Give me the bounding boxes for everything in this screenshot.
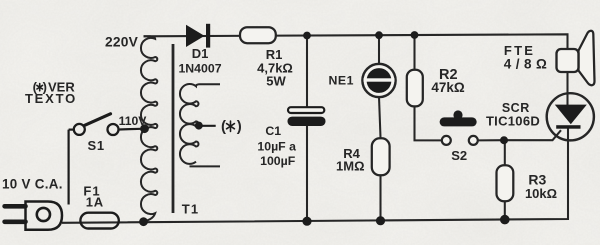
svg-text:S2: S2 — [451, 148, 467, 163]
svg-text:C1: C1 — [265, 124, 281, 138]
svg-text:1N4007: 1N4007 — [178, 61, 221, 75]
svg-text:TEXTO: TEXTO — [25, 91, 77, 106]
svg-text:10 V C.A.: 10 V C.A. — [2, 176, 63, 191]
svg-text:NE1: NE1 — [328, 73, 353, 87]
svg-text:10kΩ: 10kΩ — [525, 186, 557, 201]
svg-text:47kΩ: 47kΩ — [431, 80, 465, 95]
svg-text:): ) — [237, 118, 242, 135]
svg-text:TIC106D: TIC106D — [486, 113, 540, 128]
svg-text:10µF a: 10µF a — [257, 139, 296, 153]
svg-text:110V: 110V — [119, 114, 148, 128]
svg-text:(: ( — [221, 118, 226, 135]
svg-text:T1: T1 — [182, 202, 200, 217]
svg-text:S1: S1 — [87, 138, 105, 153]
svg-text:220V: 220V — [105, 34, 139, 49]
svg-text:5W: 5W — [266, 74, 286, 89]
svg-text:D1: D1 — [192, 46, 209, 61]
svg-text:1A: 1A — [86, 194, 104, 209]
svg-text:4/8Ω: 4/8Ω — [504, 56, 552, 71]
svg-text:1MΩ: 1MΩ — [336, 158, 364, 173]
svg-text:100µF: 100µF — [260, 154, 296, 168]
